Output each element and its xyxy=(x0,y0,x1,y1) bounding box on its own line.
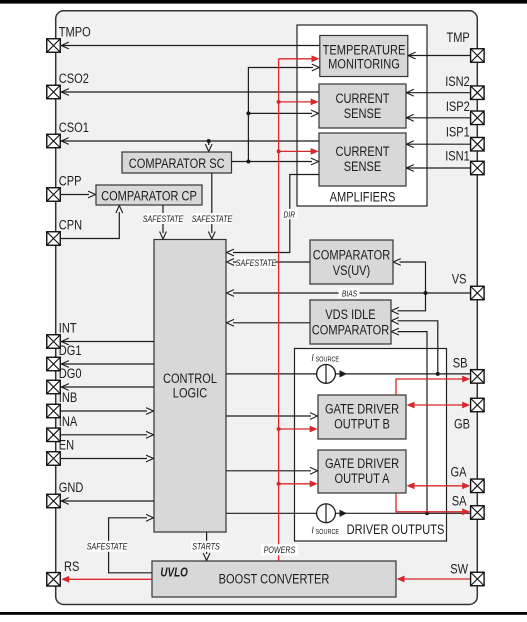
pin CPP xyxy=(47,173,82,201)
svg-text:AMPLIFIERS: AMPLIFIERS xyxy=(330,189,396,205)
wire DG0 xyxy=(61,384,154,391)
wire ISN1 to CURRENT SENSE 2 xyxy=(406,165,470,172)
svg-text:GND: GND xyxy=(59,480,84,496)
svg-text:BIAS: BIAS xyxy=(342,289,358,299)
pin INT xyxy=(47,320,77,348)
pin VS xyxy=(452,271,484,299)
label POWERS xyxy=(261,544,298,555)
pin TMPO xyxy=(47,24,91,52)
label SAFESTATE left xyxy=(87,541,128,552)
wire GND xyxy=(61,498,154,505)
svg-text:COMPARATOR: COMPARATOR xyxy=(313,247,390,263)
wire CONTROL LOGIC to GATE DRIVER OUTPUT B xyxy=(226,413,318,420)
block CURRENT SENSE 2 xyxy=(319,133,406,186)
wire red GATE DRIVER OUTPUT A to SA xyxy=(396,494,470,516)
svg-text:CURRENT: CURRENT xyxy=(335,91,389,107)
svg-text:GA: GA xyxy=(451,464,467,480)
svg-text:DIR: DIR xyxy=(284,210,296,220)
current source I1 xyxy=(312,352,348,383)
wire COMPARATOR CP safestate to CONTROL LOGIC xyxy=(160,205,167,239)
svg-text:CSO2: CSO2 xyxy=(59,71,89,87)
block COMPARATOR CP xyxy=(96,185,202,205)
svg-text:UVLO: UVLO xyxy=(160,566,188,579)
block TEMPERATURE MONITORING xyxy=(320,36,408,77)
label SAFESTATE right xyxy=(236,257,277,268)
wire VS branch to COMPARATOR VS(UV) xyxy=(393,259,425,293)
node junction CSO1 to COMPARATOR SC xyxy=(205,139,212,152)
pin DG1 xyxy=(47,343,82,371)
wire CPP to COMPARATOR CP xyxy=(61,191,96,198)
pin GND xyxy=(47,480,84,508)
svg-text:VDS IDLE: VDS IDLE xyxy=(325,307,375,323)
block COMPARATOR SC xyxy=(122,152,232,173)
svg-text:TMPO: TMPO xyxy=(59,24,91,40)
wire DIR from CURRENT SENSE 2 to CONTROL LOGIC xyxy=(227,175,320,256)
pin TMP xyxy=(446,30,484,62)
pin INB xyxy=(47,390,77,418)
pin GA xyxy=(451,464,485,492)
svg-text:SA: SA xyxy=(452,493,467,509)
svg-text:INA: INA xyxy=(59,414,78,430)
pin SW xyxy=(450,561,484,586)
svg-text:SENSE: SENSE xyxy=(344,106,381,122)
wire SAFESTATE from BOOST CONVERTER to CONTROL LOGIC xyxy=(109,514,154,572)
block CONTROL LOGIC xyxy=(154,240,226,533)
svg-text:SW: SW xyxy=(450,561,468,577)
wire SA row xyxy=(226,512,470,514)
wire INB xyxy=(61,408,154,415)
wire red GA bidirectional xyxy=(407,482,471,489)
wire CSO1 to CURRENT SENSE 2 xyxy=(61,138,319,145)
pin RS xyxy=(47,559,80,586)
block GATE DRIVER OUTPUT A xyxy=(318,450,406,493)
wire red to TEMPERATURE MONITORING xyxy=(279,55,320,62)
pin CPN xyxy=(47,217,82,245)
pin CSO2 xyxy=(47,71,89,99)
svg-text:INT: INT xyxy=(59,320,77,336)
svg-text:ISN2: ISN2 xyxy=(445,74,470,90)
svg-text:SAFESTATE: SAFESTATE xyxy=(87,542,128,552)
block GATE DRIVER OUTPUT B xyxy=(318,395,406,439)
svg-text:COMPARATOR SC: COMPARATOR SC xyxy=(129,156,225,172)
svg-text:BOOST CONVERTER: BOOST CONVERTER xyxy=(219,571,330,587)
svg-text:CPP: CPP xyxy=(59,173,82,189)
svg-text:ISN1: ISN1 xyxy=(445,148,470,164)
svg-text:VS(UV): VS(UV) xyxy=(333,263,370,279)
svg-text:SAFESTATE: SAFESTATE xyxy=(236,258,277,268)
svg-text:GB: GB xyxy=(454,416,470,432)
svg-text:RS: RS xyxy=(64,559,79,575)
wire TMPO to TEMPERATURE MONITORING xyxy=(61,42,320,49)
pin DG0 xyxy=(47,366,82,394)
svg-text:INB: INB xyxy=(59,390,77,406)
wire VS BIAS to CONTROL LOGIC xyxy=(227,290,471,297)
block DRIVER OUTPUTS group box xyxy=(295,349,447,542)
wire SA sense to VDS IDLE COMPARATOR input 3 xyxy=(391,328,429,515)
svg-text:DG1: DG1 xyxy=(59,343,82,359)
IC boundary xyxy=(56,11,478,605)
svg-text:CURRENT: CURRENT xyxy=(335,144,389,160)
wire INT xyxy=(61,338,154,345)
wire EN xyxy=(61,455,154,462)
wire CPN to COMPARATOR CP bottom xyxy=(61,206,123,239)
wire VS branch to VDS IDLE COMPARATOR input 1 xyxy=(391,293,425,314)
wire CONTROL LOGIC to GATE DRIVER OUTPUT A xyxy=(226,467,318,474)
svg-text:SB: SB xyxy=(453,355,468,371)
svg-text:COMPARATOR CP: COMPARATOR CP xyxy=(101,188,197,204)
wire SAFESTATE from COMPARATOR VS(UV) to CONTROL LOGIC xyxy=(227,259,311,266)
label STARTS xyxy=(191,541,222,552)
svg-text:TMP: TMP xyxy=(446,30,469,46)
pin CSO1 xyxy=(47,120,89,148)
label DIR xyxy=(282,209,298,220)
svg-text:DG0: DG0 xyxy=(59,366,82,382)
svg-text:OUTPUT B: OUTPUT B xyxy=(334,416,390,432)
wire red GATE DRIVER OUTPUT B to SB xyxy=(396,376,470,395)
svg-text:CONTROL: CONTROL xyxy=(163,371,217,387)
wire ISP2 to CURRENT SENSE 1 xyxy=(406,114,470,121)
wire red to GATE DRIVER OUTPUT A xyxy=(277,480,318,487)
block COMPARATOR VS(UV) xyxy=(310,240,393,284)
label SAFESTATE under comparator CP xyxy=(143,213,184,224)
wire ISP1 to CURRENT SENSE 2 xyxy=(406,141,470,148)
svg-text:SOURCE: SOURCE xyxy=(316,528,340,536)
block AMPLIFIERS group box xyxy=(297,25,427,206)
svg-text:SENSE: SENSE xyxy=(344,159,381,175)
svg-text:CPN: CPN xyxy=(59,217,82,233)
svg-text:EN: EN xyxy=(59,437,74,453)
block CURRENT SENSE 1 xyxy=(319,84,406,128)
label UVLO xyxy=(160,566,188,579)
pin ISP2 xyxy=(446,99,484,125)
svg-text:GATE DRIVER: GATE DRIVER xyxy=(325,401,399,417)
svg-text:DRIVER OUTPUTS: DRIVER OUTPUTS xyxy=(347,522,445,538)
svg-text:SAFESTATE: SAFESTATE xyxy=(143,214,184,224)
svg-text:CSO1: CSO1 xyxy=(59,120,89,136)
block VDS IDLE COMPARATOR xyxy=(310,300,391,344)
wire red to CURRENT SENSE 1 xyxy=(277,99,319,106)
pin ISP1 xyxy=(446,124,484,151)
wire SB sense to VDS IDLE COMPARATOR input 2 xyxy=(391,317,440,376)
current source I2 xyxy=(312,504,348,536)
pin SA xyxy=(452,493,484,519)
wire COMPARATOR SC safestate to CONTROL LOGIC xyxy=(208,173,215,239)
pin GB xyxy=(454,398,484,431)
svg-text:GATE DRIVER: GATE DRIVER xyxy=(325,456,399,472)
wire ISN2 to CURRENT SENSE 1 xyxy=(406,89,470,96)
wire STARTS from CONTROL LOGIC to BOOST CONVERTER xyxy=(203,532,210,561)
svg-text:COMPARATOR: COMPARATOR xyxy=(312,322,389,338)
wire VDS IDLE COMPARATOR output to CONTROL LOGIC xyxy=(227,319,311,326)
wire red BOOST CONVERTER to RS xyxy=(61,576,152,583)
pin ISN1 xyxy=(445,148,484,175)
svg-text:SAFESTATE: SAFESTATE xyxy=(192,214,233,224)
wire red GB bidirectional xyxy=(407,402,471,409)
pin EN xyxy=(47,437,74,465)
svg-text:ISP2: ISP2 xyxy=(446,99,470,115)
svg-text:MONITORING: MONITORING xyxy=(328,56,400,72)
pin SB xyxy=(453,355,484,383)
block BOOST CONVERTER xyxy=(152,561,396,597)
svg-text:STARTS: STARTS xyxy=(192,542,220,552)
wire red to CURRENT SENSE 2 xyxy=(277,148,319,155)
wire TMP to TEMPERATURE MONITORING xyxy=(408,52,471,59)
wire red supply rail POWERS xyxy=(278,59,280,561)
label BIAS xyxy=(339,288,360,298)
wire DG1 xyxy=(61,361,154,368)
svg-text:VS: VS xyxy=(452,271,467,287)
svg-text:POWERS: POWERS xyxy=(264,545,296,555)
svg-text:SOURCE: SOURCE xyxy=(316,356,340,364)
wire red SW to BOOST CONVERTER xyxy=(397,576,471,583)
svg-text:LOGIC: LOGIC xyxy=(173,385,207,401)
label SAFESTATE under comparator SC xyxy=(192,213,233,224)
wire red to GATE DRIVER OUTPUT B xyxy=(277,426,318,433)
pin ISN2 xyxy=(445,74,484,100)
wire SB row xyxy=(226,373,470,375)
svg-text:ISP1: ISP1 xyxy=(446,124,470,140)
wire COMPARATOR SC output bus to amplifier blocks xyxy=(232,64,320,165)
wire CSO2 to CURRENT SENSE 1 xyxy=(61,89,319,96)
pin INA xyxy=(47,414,78,442)
wire INA xyxy=(61,431,154,438)
svg-text:OUTPUT A: OUTPUT A xyxy=(334,471,390,487)
